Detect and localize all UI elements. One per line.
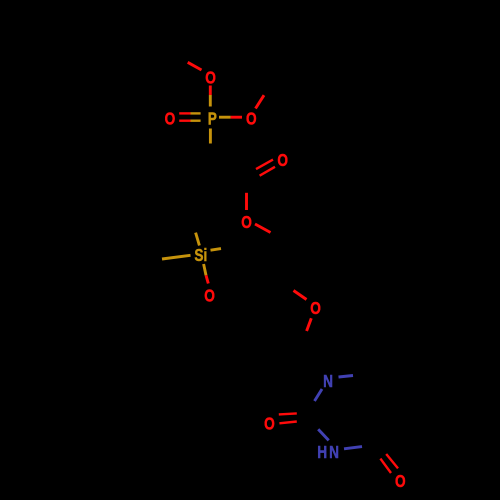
wire N1-C6 blue half <box>339 376 354 378</box>
wire N3-C4 blue half <box>344 447 362 449</box>
svg-text:N: N <box>323 373 333 392</box>
wire O4p-C1p red half <box>307 318 312 331</box>
wire Si-O red half <box>206 275 208 283</box>
svg-text:O: O <box>241 213 252 232</box>
wire Si-C right gold <box>211 249 222 251</box>
svg-text:H: H <box>317 444 327 463</box>
wire O1-CH3 red half <box>188 62 202 70</box>
svg-text:O: O <box>165 110 176 129</box>
wire P-O2 gold half <box>219 116 231 119</box>
wire C-Oe red half <box>245 193 248 210</box>
svg-text:O: O <box>277 152 288 171</box>
svg-text:O: O <box>204 287 215 306</box>
svg-text:N: N <box>329 444 339 463</box>
wire Si-CH3 up gold <box>196 233 200 246</box>
wire P-C gold half <box>209 129 212 144</box>
svg-text:O: O <box>264 415 275 434</box>
wire P=O3 lower gold <box>191 119 201 121</box>
wire N3-C2 blue half <box>318 429 329 440</box>
wire P=O3 upper red <box>179 112 190 114</box>
wire C4=O upper red <box>386 454 398 468</box>
svg-text:O: O <box>205 69 216 88</box>
wire O1-P red half <box>209 86 212 96</box>
svg-text:O: O <box>246 110 257 129</box>
svg-text:Si: Si <box>194 247 207 266</box>
wire Si-O gold half <box>204 264 206 275</box>
wire P=O3 lower red <box>179 119 190 121</box>
svg-text:O: O <box>310 300 321 319</box>
wire N1-C2 blue half <box>315 389 323 401</box>
wire P-O2 red half <box>231 116 242 119</box>
wire P=O3 upper gold <box>191 112 201 114</box>
svg-text:P: P <box>208 110 217 129</box>
wire C=O lower red <box>260 167 275 176</box>
wire C=O upper red <box>256 160 273 170</box>
wire C2=O upper red <box>279 413 297 414</box>
wire O1-P gold half <box>209 95 212 107</box>
wire C4p-O4p red half <box>294 291 307 300</box>
wire Si-CH3 left gold <box>162 255 191 259</box>
wire Oe-C red half <box>255 224 271 233</box>
svg-text:O: O <box>395 473 406 492</box>
wire O2-CH3 red half <box>256 95 265 108</box>
wire C4=O lower red <box>380 459 391 473</box>
wire C2=O lower red <box>279 422 296 424</box>
